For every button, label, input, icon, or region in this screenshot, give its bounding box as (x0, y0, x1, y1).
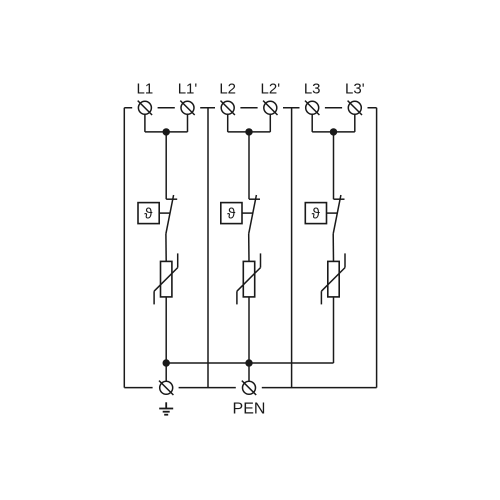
node bus phase 1 (163, 359, 170, 366)
section divider wire 2 (291, 108, 293, 388)
wire thermal box to contact phase 2 (242, 212, 253, 214)
varistor RV3 (321, 253, 345, 304)
wire contact to varistor phase 2 (248, 234, 250, 262)
common bus wire (166, 362, 333, 364)
terminal L3' (348, 101, 362, 115)
svg-text:L2: L2 (219, 81, 236, 98)
thermal disconnector switch contact phase 3 (333, 195, 344, 234)
wire node 2 to disconnector 2 (248, 132, 250, 199)
node junction phase 2 (245, 128, 252, 135)
svg-text:ϑ: ϑ (227, 205, 236, 222)
wire from L3' to node 3 (354, 114, 356, 132)
node bus phase 2 (245, 359, 252, 366)
PEN terminal (242, 381, 256, 395)
thermal disconnector switch contact phase 2 (249, 195, 260, 234)
terminal L2 (221, 101, 235, 115)
svg-text:L1': L1' (178, 81, 198, 98)
wire node 3 to disconnector 3 (333, 132, 335, 199)
wire bus to PEN terminal (248, 363, 250, 381)
thermal element box F2 (221, 203, 242, 224)
enclosure frame right side (376, 108, 378, 388)
svg-text:L2': L2' (261, 81, 281, 98)
wire from L3 to node 3 (311, 114, 313, 132)
wire varistor 2 to bus (248, 297, 250, 363)
wire contact to varistor phase 3 (332, 234, 334, 262)
enclosure frame bottom edge (with terminal gaps) (124, 387, 376, 389)
wire from L1' to node 1 (187, 114, 189, 132)
svg-text:ϑ: ϑ (144, 205, 153, 222)
node junction phase 3 (330, 128, 337, 135)
wire bracket joining L3 and L3' (312, 131, 355, 133)
section divider wire 1 (207, 108, 209, 388)
wire thermal box to contact phase 3 (327, 212, 338, 214)
terminal L2' (263, 101, 277, 115)
enclosure frame top edge (with terminal gaps) (124, 107, 376, 109)
enclosure frame left side (123, 108, 125, 388)
svg-text:ϑ: ϑ (312, 205, 321, 222)
node junction phase 1 (163, 128, 170, 135)
thermal disconnector switch contact phase 1 (166, 195, 177, 234)
svg-text:L3': L3' (345, 81, 365, 98)
wire contact to varistor phase 1 (165, 234, 167, 262)
thermal element box F3 (305, 203, 326, 224)
svg-text:L1: L1 (137, 81, 154, 98)
varistor RV1 (154, 253, 178, 304)
wire from L1 to node 1 (144, 114, 146, 132)
varistor RV2 (237, 253, 261, 304)
wire bracket joining L1 and L1' (145, 131, 188, 133)
wire bus to earth terminal (165, 363, 167, 381)
thermal element box F1 (138, 203, 159, 224)
wire thermal box to contact phase 1 (159, 212, 170, 214)
wire from L2 to node 2 (227, 114, 229, 132)
wire from L2' to node 2 (269, 114, 271, 132)
terminal L3 (305, 101, 319, 115)
wire varistor 1 to bus (165, 297, 167, 363)
wire node 1 to disconnector 1 (165, 132, 167, 199)
ground symbol (159, 402, 173, 414)
terminal L1' (180, 101, 194, 115)
terminal L1 (138, 101, 152, 115)
earth terminal (159, 381, 173, 395)
svg-text:L3: L3 (304, 81, 321, 98)
wire varistor 3 to bus (333, 297, 335, 363)
wire bracket joining L2 and L2' (228, 131, 271, 133)
svg-text:PEN: PEN (233, 401, 266, 418)
